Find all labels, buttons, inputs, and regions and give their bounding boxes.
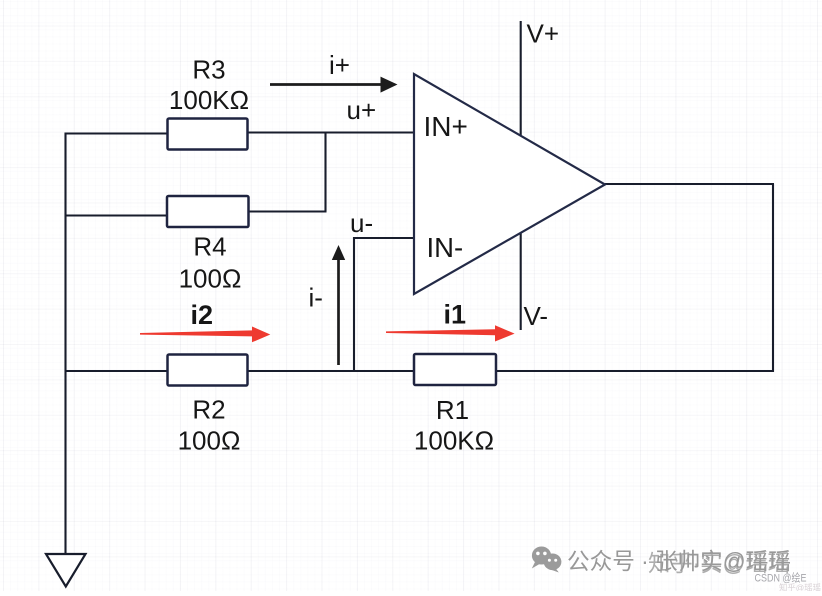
svg-text:i+: i+ [329,50,350,80]
wire: bottom rail left segment [65,370,168,372]
watermark wechat icon [532,547,562,573]
svg-text:100KΩ: 100KΩ [414,426,494,456]
svg-text:R1: R1 [436,395,469,425]
arrow i2 (red, tapered) [140,327,270,343]
wire: op-amp output [605,183,774,185]
svg-text:IN+: IN+ [424,111,468,142]
svg-text:V-: V- [524,301,549,331]
svg-text:R4: R4 [193,232,226,262]
wire: bottom rail right segment R1 to feedback corner [496,370,775,372]
svg-text:i1: i1 [444,300,467,330]
wire: R4 left lead [65,214,168,216]
arrow i+ (black, right) [270,77,398,93]
wire: V- supply line [520,234,522,331]
resistor R4 [167,196,249,227]
svg-text:u-: u- [350,208,373,238]
svg-text:R2: R2 [192,395,225,425]
svg-text:R3: R3 [192,55,225,85]
svg-text:i-: i- [309,283,323,313]
svg-text:知乎@瑶瑶: 知乎@瑶瑶 [779,583,821,592]
svg-text:i2: i2 [191,300,214,330]
wire: bottom rail middle segment R2 to R1 [248,370,415,372]
op-amp U1 triangle [414,74,605,294]
ground [46,554,86,587]
wire: left vertical bus from R3 row down to ground [64,133,66,554]
arrow i- (black, up) [332,245,345,365]
wire: R3 left lead [65,132,168,134]
resistor R1 [414,354,496,385]
wire: u- vertical from IN- stub to bottom rail [353,237,355,371]
svg-text:u+: u+ [347,95,377,125]
svg-text:100Ω: 100Ω [179,264,242,294]
wire: V+ supply line [520,21,522,135]
wire: IN- stub [354,237,414,239]
wire: R4 right lead [248,210,327,212]
svg-text:100KΩ: 100KΩ [169,85,249,115]
wire: feedback right vertical [772,184,774,372]
svg-text:V+: V+ [527,19,560,49]
svg-text:IN-: IN- [427,232,464,263]
wire: junction drop from IN+ run down to R4 right lead [324,133,326,212]
arrow i1 (red, tapered) [386,325,515,341]
svg-text:100Ω: 100Ω [178,426,241,456]
resistor R2 [168,355,248,386]
resistor R3 [168,119,248,150]
wire: R3 right lead to op-amp IN+ [248,131,415,133]
